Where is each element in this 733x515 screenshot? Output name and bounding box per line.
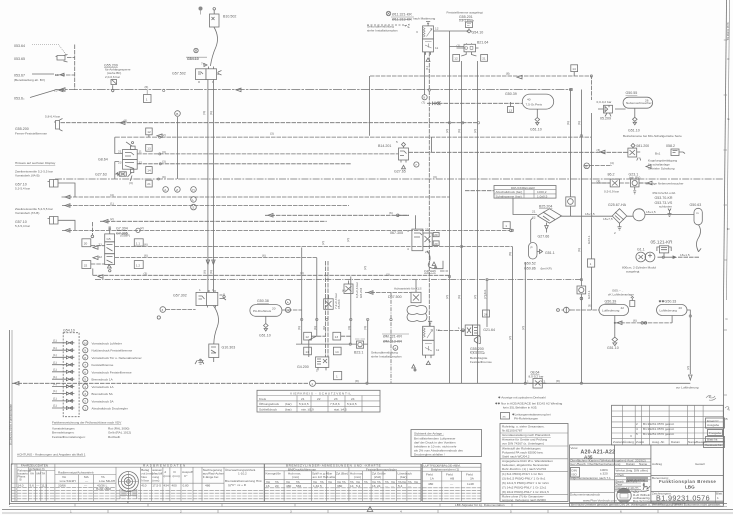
compressor G1.1 xyxy=(622,248,656,274)
svg-text:(1): (1) xyxy=(124,119,128,123)
svg-text:1,0±0,5: 1,0±0,5 xyxy=(537,194,548,198)
svg-text:Getriebe Schaltung: Getriebe Schaltung xyxy=(648,167,675,171)
revision table xyxy=(612,405,724,445)
svg-text:Rohr-Durchm. (1) ) nach VG704: Rohr-Durchm. (1) ) nach VG704 xyxy=(502,467,546,471)
valve B21.64 xyxy=(450,43,479,56)
wire y310 airspring feed xyxy=(570,309,599,311)
svg-text:G1.1: G1.1 xyxy=(637,248,645,252)
svg-text:1.2: 1.2 xyxy=(136,264,141,268)
svg-text:(brig. DIN offen): (brig. DIN offen) xyxy=(626,469,648,473)
valve block G8.64 xyxy=(95,137,142,185)
svg-text:(1): (1) xyxy=(53,368,57,372)
svg-text:32: 32 xyxy=(84,264,88,268)
curve G57.302 to G10.303 xyxy=(213,306,218,345)
svg-text:18+1,5: 18+1,5 xyxy=(680,253,690,257)
svg-text:(8) 16x2 P60/Q-PNLY 1 Gr 16x: (8) 16x2 P60/Q-PNLY 1 Gr 16x1,5 xyxy=(502,490,549,494)
svg-text:Allgemeintoleranzen nach 7.1: Allgemeintoleranzen nach 7.1 xyxy=(570,476,611,480)
svg-text:4: 4 xyxy=(84,385,86,389)
svg-text:(6): (6) xyxy=(577,121,581,125)
svg-text:3: 3 xyxy=(212,288,214,292)
svg-text:Bei Nicht-Urheber gestützt gem: Bei Nicht-Urheber gestützt gemäß DIN 34.… xyxy=(571,503,721,507)
vertical x449.5 xyxy=(449,31,451,383)
svg-text:3: 3 xyxy=(290,510,292,514)
border left xyxy=(10,330,13,505)
svg-text:B1.99251.0576 geänd.: B1.99251.0576 geänd. xyxy=(643,432,674,436)
svg-text:5,9-0,5: 5,9-0,5 xyxy=(347,402,357,406)
svg-text:0,0-0,2 bar: 0,0-0,2 bar xyxy=(597,100,612,104)
svg-text:13: 13 xyxy=(335,335,339,339)
diamond G51.10 low xyxy=(607,337,619,350)
VA/TA sub header row xyxy=(264,479,421,481)
G53.65 stub xyxy=(67,57,75,59)
vertical dashed pair x326 G4.200 xyxy=(325,261,328,357)
svg-text:20: 20 xyxy=(272,307,276,311)
svg-text:1: 1 xyxy=(336,375,338,379)
svg-text:Radbremstyp/Achsantrieb: Radbremstyp/Achsantrieb xyxy=(58,471,94,475)
svg-text:G4.200: G4.200 xyxy=(297,365,309,369)
axle drive D57.500 xyxy=(388,280,427,322)
air suspension oval G50.33 xyxy=(657,300,691,316)
svg-text:14: 14 xyxy=(572,67,576,71)
svg-text:(2): (2) xyxy=(445,295,449,299)
svg-text:12: 12 xyxy=(305,335,309,339)
svg-text:(2): (2) xyxy=(140,226,144,230)
wire y197 xyxy=(62,196,450,198)
svg-text:26: 26 xyxy=(484,312,488,316)
svg-text:G50.86: G50.86 xyxy=(524,267,536,271)
svg-text:20: 20 xyxy=(434,233,438,237)
check valve 05.209 xyxy=(597,100,626,121)
svg-text:5,4: 5,4 xyxy=(356,484,361,488)
svg-text:18+1,5: 18+1,5 xyxy=(646,210,656,214)
curve G67.305 drain xyxy=(427,251,443,269)
note farbkennzeichnung xyxy=(52,421,131,439)
svg-text:0,80: 0,80 xyxy=(183,484,189,488)
svg-text:410: 410 xyxy=(141,484,146,488)
svg-text:2: 2 xyxy=(84,399,86,403)
svg-text:G25.67-HA: G25.67-HA xyxy=(608,203,627,207)
curve G50.63 down xyxy=(697,225,702,252)
vertical x429.3 dashed from hand valve xyxy=(428,52,430,326)
air suspension oval G50.39b xyxy=(599,289,635,316)
coupling G57.10 b xyxy=(15,207,58,228)
svg-text:Stahl nach WC/04.2: Stahl nach WC/04.2 xyxy=(502,455,530,459)
svg-text:(3) 8x1,5 P60/Q-PNLY 1 Gr 8x: (3) 8x1,5 P60/Q-PNLY 1 Gr 8x1 xyxy=(502,477,546,481)
svg-text:Vorratsbeh.(TA B): Vorratsbeh.(TA B) xyxy=(15,211,39,215)
svg-text:12: 12 xyxy=(139,161,143,165)
svg-text:1: 1 xyxy=(146,97,148,101)
wire y322.8 between air spring ovals xyxy=(615,322,672,324)
svg-text:7: 7 xyxy=(84,363,86,367)
svg-text:Farbkennzeichnung der Prüfansc: Farbkennzeichnung der Prüfanschlüsse nac… xyxy=(52,421,122,425)
svg-text:Änderg: Änderg xyxy=(624,440,634,444)
svg-text:21: 21 xyxy=(482,57,486,61)
svg-text:2: 2 xyxy=(544,379,546,383)
svg-text:5: 5 xyxy=(396,140,398,144)
svg-text:zK Luftfederanlage: zK Luftfederanlage xyxy=(608,293,634,297)
svg-text:2: 2 xyxy=(180,510,182,514)
svg-text:1: 1 xyxy=(84,407,86,411)
svg-text:17,5-5: 17,5-5 xyxy=(152,484,161,488)
svg-text:(2): (2) xyxy=(473,129,477,133)
svg-text:1: 1 xyxy=(199,288,201,292)
svg-text:B1.99231.0576: B1.99231.0576 xyxy=(726,22,730,40)
svg-text:(3): (3) xyxy=(597,148,601,152)
plug G55.200 xyxy=(15,115,63,136)
svg-text:Name: Name xyxy=(639,462,648,466)
svg-text:(8): (8) xyxy=(556,379,560,383)
svg-text:E: E xyxy=(728,117,730,121)
svg-text:Öffnungsdruck: Öffnungsdruck xyxy=(259,402,280,406)
vertical x350.8 xyxy=(350,277,352,345)
svg-text:(2): (2) xyxy=(686,366,690,370)
svg-text:(1): (1) xyxy=(53,339,57,343)
svg-text:Vorratsbeh.(VA B): Vorratsbeh.(VA B) xyxy=(15,174,40,178)
svg-text:(mm): (mm) xyxy=(152,479,159,483)
svg-text:sorgung. Verlegung nach 82000: sorgung. Verlegung nach 82000 xyxy=(502,498,546,502)
svg-text:G51.10: G51.10 xyxy=(530,128,542,132)
svg-text:Luftfederung: Luftfederung xyxy=(602,309,620,313)
svg-text:(4): (4) xyxy=(610,161,614,165)
test point block G54.10 xyxy=(52,329,142,417)
circled B node xyxy=(175,111,181,117)
port G53.68 xyxy=(14,89,63,101)
svg-text:G23.1: G23.1 xyxy=(587,290,591,299)
svg-text:(6): (6) xyxy=(566,121,570,125)
wire y221.3 xyxy=(100,220,327,222)
table VIERKREIS xyxy=(257,390,380,412)
svg-text:sonstige Nebenverbraucher: sonstige Nebenverbraucher xyxy=(646,182,684,186)
wire y215.3 to G67.305 xyxy=(265,214,409,216)
svg-text:(1): (1) xyxy=(53,375,57,379)
svg-text:(g*C°: xx + R: (g*C°: xx + R xyxy=(228,483,247,487)
wire main supply y89.5 xyxy=(55,89,572,91)
G53.64 dotted xyxy=(32,45,67,56)
svg-text:(6): (6) xyxy=(457,129,461,133)
svg-text:Notlösedruck Feststellbremse: Notlösedruck Feststellbremse xyxy=(92,349,133,353)
svg-text:14,0: 14,0 xyxy=(18,484,24,488)
svg-text:(Zoll): (Zoll) xyxy=(374,475,381,479)
svg-text:(3): (3) xyxy=(347,326,351,330)
node box 14 right xyxy=(571,65,578,76)
svg-text:G51.10: G51.10 xyxy=(628,129,640,133)
coupling G57.10 a xyxy=(15,170,58,191)
circled 1 node xyxy=(310,380,316,386)
wire y141.8 xyxy=(148,135,150,137)
svg-text:480: 480 xyxy=(428,482,433,486)
svg-text:Abschaltdruck Druckregler: Abschaltdruck Druckregler xyxy=(92,407,128,411)
vertical x367.7 xyxy=(368,76,370,383)
hand brake valve G11.321-KR top xyxy=(367,11,469,61)
svg-text:(2): (2) xyxy=(162,133,166,137)
svg-text:Feststellbremse: Feststellbremse xyxy=(92,363,114,367)
svg-text:Feststellbremse ausgelegt: Feststellbremse ausgelegt xyxy=(447,11,483,15)
G53.67 lead xyxy=(32,73,54,75)
svg-text:(7),6x1: (7),6x1 xyxy=(483,289,487,299)
vertical x301.7 xyxy=(301,248,303,345)
svg-text:G57.502: G57.502 xyxy=(172,72,186,76)
valve box1 G23.1 chain xyxy=(587,259,594,267)
svg-text:22: 22 xyxy=(99,255,103,259)
svg-text:10: 10 xyxy=(84,341,88,345)
wheel stamp xyxy=(118,472,138,504)
svg-text:Balgkennzeichen (1): Balgkennzeichen (1) xyxy=(431,468,459,472)
svg-text:067.305: 067.305 xyxy=(390,231,403,235)
G57.10b step xyxy=(58,220,75,230)
vertical x525.3 xyxy=(524,262,526,383)
svg-text:ØM.313-KR: ØM.313-KR xyxy=(383,340,402,344)
curve B10.502 to G57.502 xyxy=(210,27,217,66)
svg-text:schlosten: schlosten xyxy=(659,205,672,209)
svg-text:(9): (9) xyxy=(162,175,166,179)
svg-text:G27.66: G27.66 xyxy=(538,235,550,239)
handwritten mark xyxy=(706,395,716,400)
svg-text:21: 21 xyxy=(118,150,122,154)
wire y257.7 xyxy=(115,257,317,259)
svg-text:29: 29 xyxy=(425,250,429,254)
svg-text:13: 13 xyxy=(147,146,151,150)
svg-text:5,3-5,4 bar: 5,3-5,4 bar xyxy=(15,187,30,191)
svg-text:5,4: 5,4 xyxy=(398,484,403,488)
circled B right xyxy=(584,163,590,169)
svg-text:12: 12 xyxy=(454,57,458,61)
node box 1 mid xyxy=(503,222,510,229)
svg-text:3: 3 xyxy=(416,30,418,34)
svg-text:G50.39: G50.39 xyxy=(605,300,617,304)
svg-text:(6): (6) xyxy=(322,326,326,330)
wire y103 dryer to vert xyxy=(427,102,522,104)
svg-text:(bar): (bar) xyxy=(400,475,407,479)
node boxes 13/13 xyxy=(304,332,312,340)
svg-text:23: 23 xyxy=(118,161,122,165)
svg-text:Vorratsdruck Luftfeder: Vorratsdruck Luftfeder xyxy=(92,341,122,345)
svg-text:24: 24 xyxy=(377,484,381,488)
svg-text:6: 6 xyxy=(620,510,622,514)
svg-text:(6): (6) xyxy=(588,304,592,308)
svg-text:18+7,5: 18+7,5 xyxy=(585,212,595,216)
svg-text:Blatt-Nr.: Blatt-Nr. xyxy=(707,438,718,442)
svg-text:8,0-0,2 bar: 8,0-0,2 bar xyxy=(529,375,544,379)
svg-text:ØM.321-KR: ØM.321-KR xyxy=(383,335,402,339)
wire y152.5 to B14.201 xyxy=(137,152,628,154)
switch 05.204 xyxy=(324,293,341,309)
svg-text:(3): (3) xyxy=(144,272,148,276)
wire jog x431.6 xyxy=(431,137,433,152)
parts list box xyxy=(500,424,568,503)
svg-text:(6): (6) xyxy=(209,270,213,274)
svg-text:7,5-Gr.Preis: 7,5-Gr.Preis xyxy=(526,103,543,107)
svg-text:(1): (1) xyxy=(53,346,57,350)
wire y166.5 xyxy=(137,164,647,183)
svg-text:min. ≥5,9: min. ≥5,9 xyxy=(301,408,314,412)
valve G57.302 xyxy=(173,288,226,308)
svg-text:23: 23 xyxy=(334,397,338,401)
switch G8.203 xyxy=(344,281,363,299)
svg-text:B25.204: B25.204 xyxy=(539,205,552,209)
coupling head symbol xyxy=(557,307,571,313)
svg-text:G5: G5 xyxy=(107,237,111,241)
G53.67 stub xyxy=(55,74,75,76)
svg-text:B23.1: B23.1 xyxy=(354,351,363,355)
svg-text:L3: L3 xyxy=(509,108,513,112)
svg-text:11: 11 xyxy=(435,46,438,50)
svg-text:05.209: 05.209 xyxy=(600,117,611,121)
svg-text:(6) 12x1,5 P60/Q-PNLY 1 Gr 12: (6) 12x1,5 P60/Q-PNLY 1 Gr 12x1 xyxy=(502,481,549,485)
wire y247.5 xyxy=(115,246,513,248)
node boxes 14/14 xyxy=(304,347,312,355)
svg-text:8: 8 xyxy=(84,356,86,360)
svg-text:G53.70-KR: G53.70-KR xyxy=(655,196,673,200)
svg-text:Ø11.321-KR: Ø11.321-KR xyxy=(392,13,412,17)
pressure valve 08.64 xyxy=(527,371,546,388)
svg-text:Ausg.-Nr.: Ausg.-Nr. xyxy=(652,440,665,444)
wire y330 G11.321 to G21.64 xyxy=(438,330,465,332)
vertical x316.8 with jog to G4.200 xyxy=(309,258,317,357)
silencer G10.303 xyxy=(195,344,235,364)
svg-text:11,5: 11,5 xyxy=(41,484,47,488)
vertical x74.7 G53 collector xyxy=(74,45,76,91)
svg-text:(2): (2) xyxy=(110,217,114,221)
svg-text:(3): (3) xyxy=(386,272,390,276)
svg-text:053.64: 053.64 xyxy=(14,44,25,48)
svg-text:G7.304: G7.304 xyxy=(116,227,128,231)
vertical x461.5 xyxy=(461,61,463,383)
svg-text:486: 486 xyxy=(205,484,210,488)
svg-text:Luftfederung: Luftfederung xyxy=(660,309,678,313)
wire labels xyxy=(110,72,690,383)
svg-text:xx: xx xyxy=(503,415,507,419)
svg-text:5,8-6,4 bar: 5,8-6,4 bar xyxy=(45,115,60,119)
svg-text:14: 14 xyxy=(350,484,354,488)
svg-text:33/66: 33/66 xyxy=(58,484,66,488)
svg-text:Kenngröße: Kenngröße xyxy=(266,471,282,475)
svg-text:9: 9 xyxy=(84,349,86,353)
wire y216.2 air supply right xyxy=(560,215,694,217)
svg-text:siehe Installationsplan: siehe Installationsplan xyxy=(367,29,398,33)
svg-text:Feststellbremsleitungen:: Feststellbremsleitungen: xyxy=(52,435,86,439)
svg-text:11: 11 xyxy=(139,150,142,154)
svg-text:Verw.: Verw. xyxy=(571,446,579,450)
table FAHRZEUGDATEN / RADBREMSDATEN xyxy=(11,464,264,504)
signature squiggle xyxy=(641,483,650,491)
svg-text:N bar: N bar xyxy=(141,479,149,483)
wire y344.1 xyxy=(296,343,368,345)
reservoir G51.1 xyxy=(524,243,555,271)
svg-text:(8): (8) xyxy=(508,252,512,256)
svg-text:(6): (6) xyxy=(145,85,149,89)
svg-text:G50.63: G50.63 xyxy=(690,203,702,207)
svg-text:(3): (3) xyxy=(162,150,166,154)
throttle G55.209 xyxy=(104,64,131,92)
svg-text:m: m xyxy=(696,211,699,215)
svg-text:VIERKREIS - SCHUTZVENTIL: VIERKREIS - SCHUTZVENTIL xyxy=(290,392,352,396)
svg-text:(Bereitstellung ah. BV): (Bereitstellung ah. BV) xyxy=(14,78,45,82)
svg-text:Betriebsname bei MG-Schaltgetr: Betriebsname bei MG-Schaltgetriebe Serie xyxy=(623,134,682,138)
hand valve G11.321-KR lower xyxy=(371,321,440,371)
svg-text:(2): (2) xyxy=(521,326,525,330)
svg-text:86.2: 86.2 xyxy=(608,173,615,177)
svg-text:Auftrag: Auftrag xyxy=(652,462,662,466)
svg-text:(3): (3) xyxy=(363,326,367,330)
svg-text:(mm): (mm) xyxy=(173,474,180,478)
svg-text:PA-Rohrleitungen: PA-Rohrleitungen xyxy=(514,417,538,421)
svg-text:(6): (6) xyxy=(209,111,213,115)
valve B14.201 xyxy=(378,140,419,174)
svg-text:Funktionsplan Bremse: Funktionsplan Bremse xyxy=(659,479,716,484)
svg-text:7: 7 xyxy=(415,163,417,167)
G57.10a step xyxy=(58,183,75,197)
wire y276.5 xyxy=(93,274,450,276)
svg-text:kein 35L Behälter in A35.: kein 35L Behälter in A35. xyxy=(503,406,537,410)
svg-text:5,8-0,4 bar: 5,8-0,4 bar xyxy=(470,351,485,355)
svg-text:(mm): (mm) xyxy=(292,475,299,479)
regulator table DRUCKREGLER xyxy=(494,186,556,199)
wire y257.2 compressor line xyxy=(658,256,677,258)
governor B25.204 xyxy=(531,205,562,243)
svg-text:G50.52: G50.52 xyxy=(524,262,536,266)
svg-text:B: B xyxy=(176,112,178,116)
svg-text:2: 2 xyxy=(636,422,638,426)
svg-text:1: 1 xyxy=(311,382,313,386)
svg-text:(1): (1) xyxy=(53,397,57,401)
svg-text:nach Mattierung: nach Mattierung xyxy=(413,16,435,20)
svg-text:Bremsdruck 1A: Bremsdruck 1A xyxy=(92,378,114,382)
node box 21 xyxy=(146,180,153,187)
svg-text:G54.10: G54.10 xyxy=(472,30,484,34)
revision stamp box right xyxy=(704,407,731,448)
relay valve G7.304 xyxy=(82,222,143,275)
svg-text:G50.38: G50.38 xyxy=(257,299,269,303)
svg-text:P: P xyxy=(531,246,533,250)
solenoid 081.200 xyxy=(628,144,685,161)
svg-text:G27.65: G27.65 xyxy=(394,170,406,174)
circled 3 node xyxy=(157,307,195,319)
svg-text:✱✱G50.33: ✱✱G50.33 xyxy=(659,300,677,304)
svg-text:04.7.(?): 04.7.(?) xyxy=(626,479,637,483)
svg-text:G50.55: G50.55 xyxy=(626,91,638,95)
svg-text:von DIN 74267 (s. Unterlagen): von DIN 74267 (s. Unterlagen) xyxy=(502,442,544,446)
node box 1 xyxy=(144,90,152,103)
reservoir G50.63 xyxy=(690,203,703,225)
svg-text:(bar): (bar) xyxy=(285,402,292,406)
svg-text:F: F xyxy=(728,57,730,61)
svg-text:(1) 6x1 P60/Q-PNLY 1 Gr 8: (1) 6x1 P60/Q-PNLY 1 Gr 8x1 xyxy=(502,472,543,476)
svg-text:Bremsdruck 5A: Bremsdruck 5A xyxy=(92,392,114,396)
svg-text:H: H xyxy=(192,188,194,192)
svg-text:053.67: 053.67 xyxy=(14,74,25,78)
svg-text:LBG: LBG xyxy=(685,485,695,490)
svg-text:G10.303: G10.303 xyxy=(222,346,236,350)
svg-text:✱ Anzeige mit optischem Drehza: ✱ Anzeige mit optischem Drehzahl xyxy=(498,396,546,400)
svg-text:Druckreglers abfallen !: Druckreglers abfallen ! xyxy=(414,453,445,457)
svg-text:10: 10 xyxy=(54,89,58,93)
svg-text:Blatt: Blatt xyxy=(716,492,722,496)
port G53.67 xyxy=(14,73,64,82)
svg-text:Vorratsdruck Tür u. Nebenabneh: Vorratsdruck Tür u. Nebenabnehmer xyxy=(92,356,142,360)
svg-text:(1): (1) xyxy=(53,404,57,408)
svg-text:(6): (6) xyxy=(633,319,637,323)
svg-text:(7): (7) xyxy=(422,101,426,105)
vertical double x207.9/213.4 xyxy=(208,80,214,296)
svg-text:24: 24 xyxy=(351,397,355,401)
svg-text:Z: Z xyxy=(176,188,178,192)
vertical x512.4 xyxy=(511,247,513,384)
svg-text:(6): (6) xyxy=(144,242,148,246)
svg-text:20: 20 xyxy=(275,484,279,488)
svg-text:584: 584 xyxy=(296,484,301,488)
valve B10.502 xyxy=(199,7,237,28)
svg-text:(1): (1) xyxy=(110,201,114,205)
